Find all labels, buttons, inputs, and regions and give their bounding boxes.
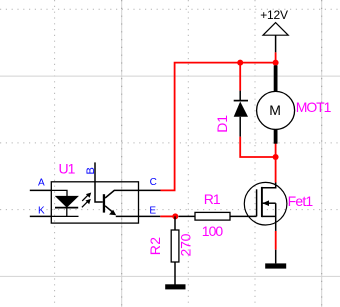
ground under Fet1 <box>265 250 286 269</box>
motor MOT1 <box>257 65 332 143</box>
pin A <box>30 189 52 191</box>
Fet1 bulk arrow <box>262 202 275 204</box>
junction: E / R1 / R2 node <box>172 213 178 219</box>
supply stub <box>275 35 277 52</box>
svg-text:Fet1: Fet1 <box>288 193 314 209</box>
junction: +12V / motor top <box>273 60 279 66</box>
R1 left pin wire <box>179 215 196 217</box>
LED cathode wire <box>66 208 68 217</box>
resistor R1 <box>179 191 257 239</box>
U1 body outline <box>51 182 138 223</box>
pin C <box>139 189 161 191</box>
svg-text:MOT1: MOT1 <box>296 99 332 115</box>
R1 right pin wire to Fet1 gate <box>230 215 257 217</box>
ground under R2 <box>165 284 185 289</box>
pin K <box>30 215 52 217</box>
MOT1 body circle <box>257 91 295 129</box>
junction: motor bottom / D1 anode / drain <box>273 154 279 160</box>
light arrow 2 <box>82 201 88 207</box>
R1 body <box>195 212 230 220</box>
junction: top rail / D1 cathode branch <box>237 60 243 66</box>
R2 bottom pin wire <box>174 262 176 285</box>
supply triangle symbol <box>263 23 288 36</box>
LED cathode bar <box>55 207 78 209</box>
Fet1 channel bar <box>261 187 263 217</box>
svg-text:E: E <box>149 206 156 217</box>
svg-text:D1: D1 <box>214 115 230 133</box>
base wire from pin B <box>95 182 103 202</box>
emitter line with arrow <box>105 206 114 214</box>
wire: opto collector C up and across to +12V rail <box>161 63 276 191</box>
svg-text:K: K <box>38 206 45 217</box>
power supply +12V <box>260 8 288 53</box>
wire: Fet1 source to ground <box>275 231 277 250</box>
diode D1 <box>214 91 248 137</box>
D1 triangle <box>234 102 248 117</box>
wire: motor bottom pin to node <box>275 144 277 158</box>
R2 body <box>171 230 179 262</box>
svg-text:B: B <box>85 167 97 174</box>
svg-text:U1: U1 <box>59 160 76 176</box>
wire: motor bottom node to Fet1 drain <box>275 157 277 183</box>
Fet1 source connection <box>262 215 276 217</box>
D1 cathode lead <box>239 91 241 101</box>
svg-text:A: A <box>38 178 45 189</box>
LED triangle <box>56 196 79 207</box>
LED anode wire <box>51 190 67 196</box>
pin B <box>94 162 96 181</box>
MOT1 bottom pin <box>274 129 278 143</box>
svg-text:100: 100 <box>202 223 224 239</box>
wire: +12V symbol to top rail <box>275 52 277 62</box>
svg-text:C: C <box>150 177 157 188</box>
ground stub <box>275 250 277 264</box>
resistor R2 <box>147 216 193 284</box>
D1 cathode bar <box>234 100 248 102</box>
wire: top rail down to D1 cathode <box>239 63 241 91</box>
R2 top pin wire <box>174 216 176 230</box>
svg-text:+12V: +12V <box>260 8 288 22</box>
phototransistor base bar <box>103 194 105 212</box>
pin E <box>139 215 161 217</box>
wire: opto emitter E to R1/R2 junction <box>160 215 175 217</box>
svg-text:270: 270 <box>178 233 194 256</box>
D1 anode lead <box>239 117 241 137</box>
ground bar <box>265 263 286 268</box>
Fet1 gate bar <box>256 189 258 216</box>
collector line <box>105 190 138 198</box>
wire: D1 anode down and right to motor bottom node <box>240 137 275 157</box>
Fet1 body circle <box>244 182 287 225</box>
light arrow 1 <box>82 195 88 201</box>
MOT1 top pin <box>274 65 278 91</box>
Fet1 drain connection <box>262 183 276 188</box>
svg-text:R1: R1 <box>204 191 221 207</box>
svg-text:M: M <box>269 102 281 118</box>
svg-text:R2: R2 <box>147 237 163 256</box>
optocoupler U1 <box>30 160 161 223</box>
mosfet Fet1 <box>244 182 313 231</box>
